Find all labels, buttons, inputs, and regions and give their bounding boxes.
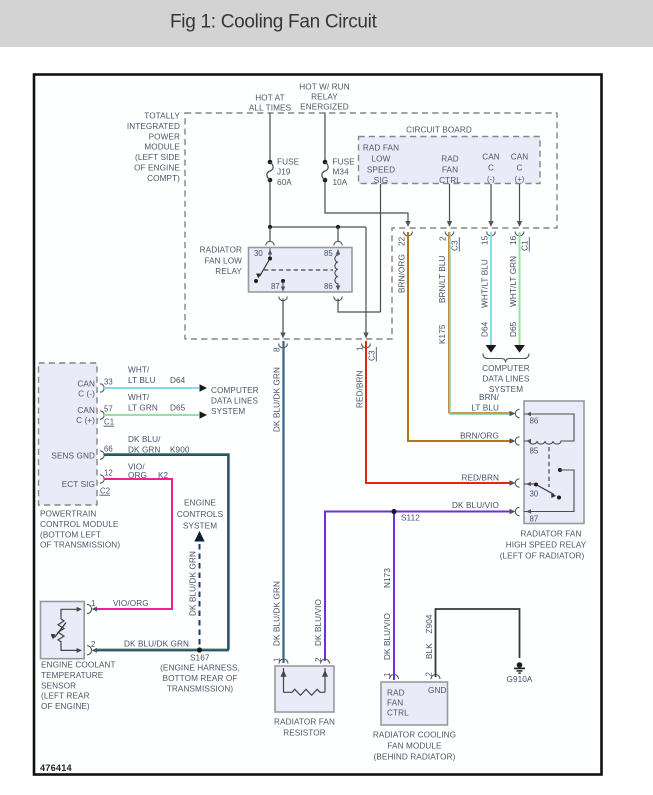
svg-text:C3: C3 (451, 240, 460, 251)
wire fuse J19 to junction (269, 182, 271, 227)
label RADIATOR FAN RESISTOR caption (274, 718, 335, 738)
svg-text:BRN/LT BLU: BRN/LT BLU (438, 255, 447, 303)
relay RADIATOR FAN HIGH SPEED RELAY box (524, 401, 584, 524)
wire DK BLU/DK GRN pin 8 to resistor pin 1 (282, 341, 284, 663)
connector pin 15 (481, 232, 496, 246)
label VIO/ ORG (128, 463, 147, 480)
svg-text:RELAY: RELAY (311, 93, 338, 102)
label RAD FAN CTRL (439, 155, 461, 186)
svg-text:D64: D64 (481, 321, 490, 337)
label DK BLU/DK GRN bottom horizontal (124, 640, 189, 649)
svg-text:D65: D65 (509, 321, 518, 337)
label RED/BRN vertical (356, 370, 365, 408)
svg-text:(LEFT OF RADIATOR): (LEFT OF RADIATOR) (500, 552, 585, 561)
wire DK BLU/VIO S112 network (325, 509, 516, 680)
svg-text:57: 57 (104, 405, 113, 414)
label DK BLU/DK GRN lower vertical (273, 581, 282, 646)
connector ect pin 1 (87, 599, 95, 614)
svg-text:VIO/ORG: VIO/ORG (113, 599, 149, 608)
svg-text:SYSTEM: SYSTEM (183, 522, 217, 531)
svg-text:CAN: CAN (482, 153, 500, 162)
splice S112 (391, 509, 420, 523)
connector high relay 87 (515, 507, 519, 515)
ground G910A (507, 662, 533, 684)
svg-text:ENGINE: ENGINE (184, 499, 216, 508)
label WHT/ LT BLU pcm (128, 366, 156, 386)
svg-text:C (-): C (-) (78, 390, 95, 399)
label COMPUTER DATA LINES SYSTEM right (482, 364, 530, 394)
svg-text:LT BLU: LT BLU (128, 376, 156, 385)
svg-text:BLK: BLK (425, 643, 434, 659)
label CAN C (+) (511, 153, 529, 184)
wire rad fan ctrl to pin 2 (447, 184, 452, 227)
svg-text:8: 8 (273, 347, 282, 352)
svg-text:CAN: CAN (511, 153, 529, 162)
label BRN/ LT BLU horizontal (471, 393, 499, 413)
connector pin 16 C1 (509, 232, 530, 252)
ect sensor internal pin 1 wire (61, 607, 82, 619)
svg-text:RAD: RAD (387, 689, 405, 698)
wire fuse M34 to pin 22 (325, 182, 411, 227)
connector pcm pin 66 (100, 445, 113, 460)
TIPM dashed outline (185, 113, 557, 339)
diagram id 476414 (40, 763, 73, 773)
svg-text:RADIATOR COOLING: RADIATOR COOLING (373, 731, 456, 740)
node junction bus 30/85/87 feed (268, 225, 366, 229)
connector TIPM pin 8 C3 (273, 344, 288, 353)
svg-text:FAN MODULE: FAN MODULE (387, 742, 442, 751)
svg-text:CAN: CAN (77, 406, 95, 415)
svg-text:SPEED: SPEED (367, 166, 395, 175)
label BRN/ORG horizontal (460, 432, 499, 441)
svg-text:33: 33 (104, 378, 113, 387)
svg-text:ENERGIZED: ENERGIZED (300, 103, 349, 112)
connector resistor pin 1 (273, 658, 289, 664)
wire can c(-) to pin 15 (488, 184, 493, 227)
svg-text:C: C (516, 164, 522, 173)
label RAD FAN CTRL inside module (387, 689, 409, 718)
connector high relay 30 (515, 479, 519, 487)
low relay pin 87 terminal (271, 279, 285, 292)
svg-text:C1: C1 (521, 240, 530, 251)
svg-text:RAD: RAD (441, 155, 459, 164)
wire WHT/LT GRN pcm D65 (104, 411, 207, 419)
resistor RADIATOR FAN RESISTOR box (275, 666, 334, 712)
svg-text:1: 1 (383, 673, 392, 677)
connector pcm pin 57 C1 (100, 405, 114, 427)
label CAN C (-) (482, 153, 500, 184)
svg-text:ALL TIMES: ALL TIMES (249, 104, 292, 113)
svg-text:22: 22 (398, 236, 407, 246)
svg-text:2: 2 (91, 640, 95, 649)
svg-text:SENSOR: SENSOR (41, 681, 76, 690)
ect sensor thermistor (51, 619, 66, 642)
label S167 location (160, 664, 240, 694)
label DK BLU/VIO horizontal (452, 501, 499, 510)
label WHT/ LT GRN pcm (128, 393, 158, 413)
label RADIATOR COOLING FAN MODULE caption (373, 731, 456, 762)
svg-text:TEMPERATURE: TEMPERATURE (41, 671, 104, 680)
svg-text:HIGH SPEED RELAY: HIGH SPEED RELAY (506, 541, 587, 550)
svg-text:RADIATOR FAN: RADIATOR FAN (274, 718, 335, 727)
wire WHT/LT GRN D65 (514, 232, 525, 353)
label K900 (170, 446, 190, 455)
svg-text:M34: M34 (333, 168, 350, 177)
svg-text:RADIATOR FAN: RADIATOR FAN (521, 530, 582, 539)
svg-text:16: 16 (509, 235, 518, 245)
svg-text:CIRCUIT BOARD: CIRCUIT BOARD (406, 126, 472, 135)
high relay coil 85 (524, 439, 574, 456)
svg-text:POWER: POWER (149, 132, 180, 141)
svg-text:D65: D65 (170, 404, 186, 413)
svg-text:SYSTEM: SYSTEM (489, 385, 523, 394)
low relay coil pins 85/86 (324, 249, 340, 291)
svg-text:S167: S167 (190, 654, 210, 663)
svg-text:COMPT): COMPT) (147, 174, 180, 183)
svg-text:SENS GND: SENS GND (51, 452, 95, 461)
svg-text:K900: K900 (170, 446, 190, 455)
svg-text:OF ENGINE): OF ENGINE) (41, 702, 90, 711)
label SENS GND (51, 452, 95, 461)
svg-text:(BOTTOM LEFT: (BOTTOM LEFT (40, 530, 101, 539)
svg-text:TOTALLY: TOTALLY (144, 112, 180, 121)
svg-text:C (+): C (+) (76, 416, 95, 425)
label TOTALLY INTEGRATED POWER MODULE (127, 112, 181, 183)
label DK BLU/DK GRN upper vertical (273, 367, 282, 432)
svg-text:SYSTEM: SYSTEM (211, 407, 245, 416)
resistor internal element (280, 668, 328, 695)
wire DK BLU/DK GRN K900 sens gnd (92, 454, 230, 653)
wire dashed DK BLU/DK GRN to engine controls (194, 531, 204, 648)
connector pcm pin 33 (100, 378, 113, 393)
svg-text:(BEHIND RADIATOR): (BEHIND RADIATOR) (374, 753, 456, 762)
svg-text:ECT SIG: ECT SIG (62, 480, 95, 489)
label BRN/ORG vertical (398, 254, 407, 293)
svg-text:WHT/: WHT/ (128, 393, 150, 402)
low relay actuator dashed link (264, 269, 333, 271)
svg-text:MODULE: MODULE (144, 143, 180, 152)
svg-text:DK BLU/DK GRN: DK BLU/DK GRN (189, 551, 198, 616)
diagram border frame (34, 75, 602, 775)
svg-text:2: 2 (439, 236, 448, 241)
svg-text:BRN/ORG: BRN/ORG (460, 432, 499, 441)
circuit board I/O box (359, 137, 541, 184)
low relay pin 30 terminal (254, 249, 272, 261)
svg-text:CONTROL MODULE: CONTROL MODULE (40, 520, 119, 529)
svg-text:1: 1 (356, 346, 365, 351)
svg-text:DATA LINES: DATA LINES (482, 375, 530, 384)
svg-text:WHT/LT BLU: WHT/LT BLU (481, 259, 490, 308)
svg-text:2: 2 (314, 658, 323, 662)
svg-text:J19: J19 (277, 168, 291, 177)
svg-text:K175: K175 (438, 324, 447, 344)
svg-text:COMPUTER: COMPUTER (211, 386, 259, 395)
svg-text:TRANSMISSION): TRANSMISSION) (167, 685, 234, 694)
label WHT/LT GRN vertical (509, 256, 518, 307)
brace to computer data lines system (483, 354, 529, 363)
label K2 (158, 471, 169, 480)
label D65 vertical (509, 321, 518, 337)
label DK BLU/DK GRN dashed vertical (189, 551, 198, 616)
svg-text:RAD FAN: RAD FAN (363, 144, 399, 153)
svg-text:85: 85 (324, 249, 333, 258)
svg-text:DK GRN: DK GRN (128, 446, 160, 455)
svg-text:FUSE: FUSE (277, 158, 300, 167)
module POWERTRAIN CONTROL MODULE box (39, 363, 98, 505)
svg-text:Z904: Z904 (425, 614, 434, 633)
svg-text:C: C (488, 164, 494, 173)
svg-text:10A: 10A (333, 178, 348, 187)
svg-text:Fig 1: Cooling Fan Circuit: Fig 1: Cooling Fan Circuit (170, 12, 378, 33)
sensor ENGINE COOLANT TEMPERATURE box (41, 602, 85, 659)
label ENGINE CONTROLS SYSTEM (177, 499, 224, 531)
wire can c(+) to pin 16 (517, 184, 522, 227)
svg-text:BRN/: BRN/ (479, 393, 500, 402)
connector high relay 86 (515, 409, 519, 417)
wire WHT/LT BLU D64 (486, 232, 497, 353)
svg-text:SIG: SIG (374, 176, 388, 185)
svg-text:BOTTOM REAR OF: BOTTOM REAR OF (163, 674, 238, 683)
label CAN C (+) pcm (76, 406, 95, 425)
svg-text:DATA LINES: DATA LINES (211, 397, 259, 406)
label RADIATOR FAN LOW RELAY (200, 246, 243, 277)
label K175 (438, 324, 447, 344)
svg-text:DK BLU/DK GRN: DK BLU/DK GRN (124, 640, 189, 649)
svg-text:15: 15 (481, 235, 490, 245)
connector pin 22 (398, 232, 413, 247)
svg-text:RADIATOR: RADIATOR (200, 246, 242, 255)
wire junction to coil 85 (334, 227, 342, 246)
wire hot-run feed (324, 113, 326, 162)
connector fan module pin 1 (383, 673, 399, 679)
svg-text:LT GRN: LT GRN (128, 404, 158, 413)
wire rad fan low speed sig drop (380, 184, 382, 312)
svg-text:85: 85 (530, 447, 539, 456)
wire BRN/LT BLU K175 pin 2 to high relay 86 (449, 232, 516, 416)
svg-text:C3: C3 (368, 350, 377, 361)
svg-text:2: 2 (425, 672, 434, 676)
svg-text:86: 86 (324, 282, 333, 291)
svg-text:CTRL: CTRL (387, 709, 409, 718)
connector TIPM pin 1 C3 (356, 344, 377, 362)
label BLK (425, 643, 434, 659)
label D64 pcm (170, 376, 186, 385)
label WHT/LT BLU vertical (481, 259, 490, 308)
label CIRCUIT BOARD (406, 126, 472, 135)
label ENGINE COOLANT TEMPERATURE SENSOR caption (41, 661, 116, 712)
high relay pin 87 contact (524, 468, 574, 524)
connector pin 86 low relay (334, 297, 342, 301)
svg-text:G910A: G910A (507, 675, 533, 684)
label BRN/LT BLU vertical (438, 255, 447, 303)
svg-text:86: 86 (530, 417, 539, 426)
svg-text:DK BLU/VIO: DK BLU/VIO (314, 599, 323, 646)
svg-text:FUSE: FUSE (333, 158, 356, 167)
wire BLK Z904 ground (436, 609, 520, 677)
svg-text:12: 12 (104, 469, 113, 478)
svg-text:66: 66 (104, 445, 113, 454)
svg-text:(LEFT REAR: (LEFT REAR (41, 692, 90, 701)
label CAN C (-) pcm (77, 380, 95, 399)
svg-text:1: 1 (273, 658, 282, 662)
connector pin 30 low relay (266, 227, 274, 246)
fuse J19 60A (267, 158, 300, 187)
fuse M34 10A (322, 158, 355, 187)
label DK BLU/VIO left vertical (314, 599, 323, 646)
svg-text:D64: D64 (170, 376, 186, 385)
svg-text:LOW: LOW (372, 155, 391, 164)
label DK BLU/ DK GRN k900 (128, 435, 161, 455)
relay RADIATOR FAN LOW RELAY box (249, 248, 353, 293)
svg-text:DK BLU/DK GRN: DK BLU/DK GRN (273, 581, 282, 646)
svg-text:1: 1 (91, 599, 95, 608)
svg-text:FAN: FAN (387, 699, 403, 708)
svg-text:OF TRANSMISSION): OF TRANSMISSION) (40, 541, 120, 550)
svg-text:RELAY: RELAY (215, 267, 242, 276)
svg-text:OF ENGINE: OF ENGINE (134, 164, 180, 173)
svg-text:(ENGINE HARNESS,: (ENGINE HARNESS, (160, 664, 240, 673)
svg-text:C2: C2 (100, 487, 110, 496)
svg-text:K2: K2 (158, 471, 169, 480)
svg-text:(+): (+) (515, 175, 525, 184)
low relay switch arm (254, 259, 270, 284)
label RED/BRN horizontal (461, 474, 499, 483)
svg-text:87: 87 (530, 515, 539, 524)
svg-text:COMPUTER: COMPUTER (482, 364, 530, 373)
high relay pin 86 wire (524, 412, 574, 440)
label RAD FAN LOW SPEED SIG (363, 144, 399, 186)
svg-text:N173: N173 (383, 568, 392, 588)
svg-text:RESISTOR: RESISTOR (283, 729, 326, 738)
connector fan module pin 2 (425, 672, 441, 679)
svg-text:FAN: FAN (442, 166, 458, 175)
label HOT W/ RUN RELAY ENERGIZED (299, 83, 349, 112)
connector pin 2 C3 (439, 232, 460, 252)
svg-text:HOT W/ RUN: HOT W/ RUN (299, 83, 349, 92)
label VIO/ORG horizontal (113, 599, 149, 608)
label D65 pcm (170, 404, 186, 413)
label Z904 (425, 614, 434, 633)
svg-text:87: 87 (271, 282, 280, 291)
svg-text:WHT/: WHT/ (128, 366, 150, 375)
svg-text:CONTROLS: CONTROLS (177, 510, 224, 519)
connector pcm pin 12 C2 (100, 469, 113, 496)
svg-text:S112: S112 (401, 514, 420, 523)
connector resistor pin 2 (314, 658, 330, 664)
svg-text:ORG: ORG (128, 471, 147, 480)
module RADIATOR COOLING FAN MODULE box (381, 682, 448, 725)
label GND inside module (428, 686, 447, 695)
label D64 vertical (481, 321, 490, 337)
title bar (0, 0, 653, 47)
wire junction to TIPM pin 1 (363, 227, 368, 339)
label POWERTRAIN CONTROL MODULE caption (40, 510, 120, 550)
svg-text:POWERTRAIN: POWERTRAIN (40, 510, 96, 519)
label HOT AT ALL TIMES (249, 94, 292, 113)
svg-text:(-): (-) (487, 175, 495, 184)
svg-text:FAN LOW: FAN LOW (204, 257, 242, 266)
label ECT SIG (62, 480, 95, 489)
svg-text:DK BLU/VIO: DK BLU/VIO (383, 613, 392, 660)
svg-text:(LEFT SIDE: (LEFT SIDE (135, 153, 180, 162)
svg-text:LT BLU: LT BLU (471, 404, 499, 413)
label DK BLU/VIO right vertical (383, 613, 392, 660)
wire hot-at-all-times feed (269, 113, 271, 162)
svg-text:HOT AT: HOT AT (255, 94, 284, 103)
high relay actuator dashed link (548, 447, 550, 487)
svg-text:60A: 60A (277, 178, 292, 187)
svg-text:30: 30 (254, 249, 263, 258)
label COMPUTER DATA LINES SYSTEM left (211, 386, 259, 416)
svg-text:DK BLU/VIO: DK BLU/VIO (452, 501, 499, 510)
svg-text:WHT/LT GRN: WHT/LT GRN (509, 256, 518, 307)
wire BRN/ORG pin 22 to high relay 85 (408, 232, 516, 444)
svg-text:DK BLU/DK GRN: DK BLU/DK GRN (273, 367, 282, 432)
label N173 (383, 568, 392, 588)
svg-text:RED/BRN: RED/BRN (356, 370, 365, 408)
svg-text:ENGINE COOLANT: ENGINE COOLANT (41, 661, 116, 670)
connector high relay 85 (515, 437, 519, 445)
svg-text:476414: 476414 (40, 763, 73, 773)
label RADIATOR FAN HIGH SPEED RELAY caption (500, 530, 587, 561)
splice S167 (190, 647, 210, 662)
connector pin 87 low relay (279, 297, 287, 339)
svg-text:BRN/ORG: BRN/ORG (398, 254, 407, 293)
svg-text:INTEGRATED: INTEGRATED (127, 122, 180, 131)
high relay pin 30 switch (524, 482, 561, 500)
ect sensor internal pin 2 wire (61, 641, 82, 653)
svg-text:RED/BRN: RED/BRN (461, 474, 499, 483)
svg-text:DK BLU/: DK BLU/ (128, 435, 161, 444)
svg-text:30: 30 (530, 490, 539, 499)
wire WHT/LT BLU pcm D64 (104, 384, 207, 392)
connector ect pin 2 (87, 640, 95, 655)
svg-text:CTRL: CTRL (439, 176, 461, 185)
wire RED/BRN pin 1 to high relay 30 (366, 341, 516, 486)
wire coil 86 to rad fan low speed sig (338, 299, 381, 313)
svg-text:GND: GND (428, 686, 447, 695)
svg-text:CAN: CAN (77, 380, 95, 389)
svg-text:C1: C1 (104, 418, 114, 427)
wire VIO/ORG K2 ect sig (92, 479, 173, 611)
